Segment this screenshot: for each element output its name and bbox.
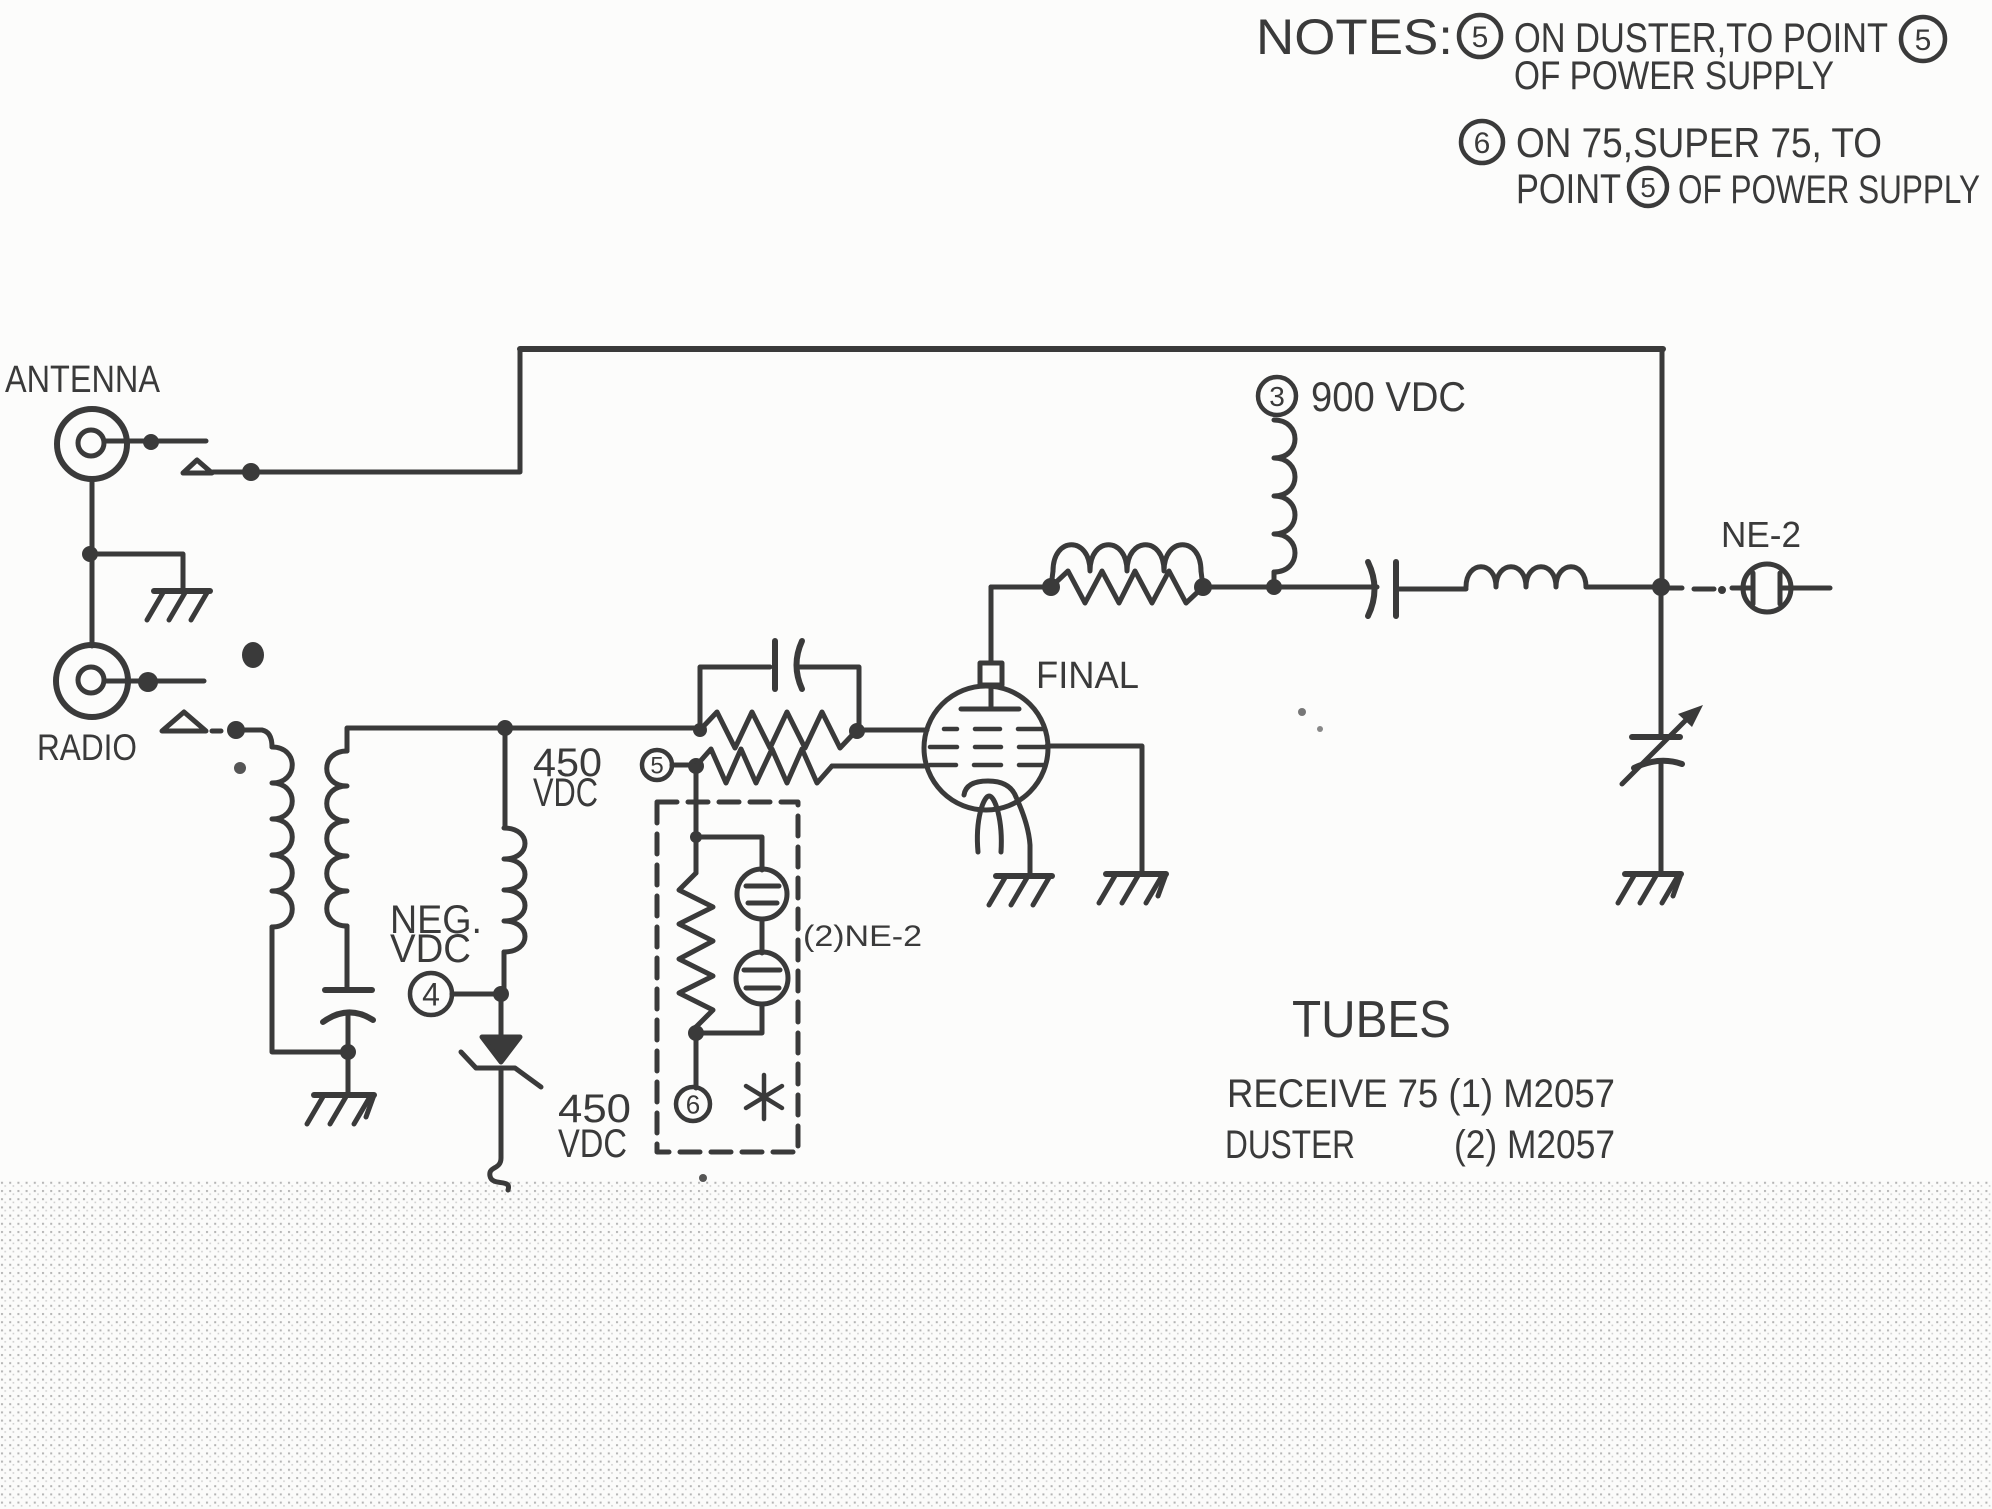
table row RECEIVE 75 (1) M2057 — [1227, 1072, 1615, 1116]
neon lamp DS1 — [737, 869, 787, 919]
inductor L3 plate choke — [1274, 420, 1295, 587]
label 450 VDC (lower) — [558, 1087, 631, 1166]
label NE-2 — [1721, 514, 1801, 555]
neon lamp DS3 NE-2 — [1743, 564, 1791, 612]
circled 6 (note line 2) — [1461, 121, 1503, 163]
svg-text:(2)NE-2: (2)NE-2 — [803, 920, 922, 953]
svg-text:4: 4 — [422, 977, 440, 1013]
svg-text:3: 3 — [1269, 381, 1285, 412]
capacitor C2 left plate — [772, 641, 778, 689]
svg-text:ANTENNA: ANTENNA — [5, 359, 161, 401]
junction dot radio wire — [227, 721, 245, 739]
label ANTENNA — [5, 359, 161, 401]
capacitor C1 flat plate — [325, 987, 372, 993]
resistor R4 (parasitic suppressor) — [1051, 571, 1203, 603]
scan speck small — [234, 708, 1323, 1182]
svg-text:6: 6 — [1474, 127, 1491, 160]
wire: after antenna triangle — [213, 470, 251, 475]
junction dot ground node — [340, 1044, 356, 1060]
junction dot on antenna stub — [143, 434, 159, 450]
tube V1 plate — [961, 685, 1019, 709]
label RADIO — [37, 727, 137, 768]
circled 5 (note line 1) — [1459, 15, 1501, 57]
svg-text:POINT: POINT — [1516, 165, 1621, 212]
capacitor C3 curved plate — [1368, 562, 1375, 616]
svg-text:OF POWER SUPPLY: OF POWER SUPPLY — [1514, 54, 1834, 98]
label NEG. VDC — [390, 898, 482, 971]
wire: branch to ground (left) — [90, 554, 183, 591]
svg-text:5: 5 — [650, 753, 663, 780]
circled 4 point — [410, 973, 452, 1015]
wire: node to zener — [499, 994, 504, 1037]
inductor L2 (parasitic suppressor) — [1051, 545, 1203, 587]
wire: top bus horizontal — [520, 346, 1663, 352]
label FINAL — [1036, 655, 1139, 697]
junction dot output node — [1652, 578, 1670, 596]
tube V1 heater leads — [977, 796, 1001, 852]
junction dot B+ node — [1266, 579, 1282, 595]
circled 5 point — [642, 750, 672, 780]
scan speck blob — [242, 642, 264, 668]
label 900 VDC — [1311, 373, 1466, 420]
capacitor C3 flat plate — [1393, 562, 1399, 616]
label 450 VDC (upper) — [533, 741, 602, 815]
svg-text:ON 75,SUPER 75, TO: ON 75,SUPER 75, TO — [1516, 119, 1882, 166]
note text OF POWER SUPPLY — [1514, 54, 1834, 98]
svg-text:VDC: VDC — [390, 927, 471, 971]
wire: C3 to L4 — [1396, 587, 1466, 592]
svg-text:NE-2: NE-2 — [1721, 514, 1801, 555]
capacitor C2 right plate (curved) — [797, 641, 803, 689]
junction dot box top node — [690, 831, 702, 843]
circled 5 (note line 2) — [1629, 168, 1667, 206]
wire: point4 stub — [452, 992, 500, 997]
wire: right bus vertical down to output node — [1660, 349, 1665, 587]
wire: to B+ node — [1203, 585, 1377, 590]
resistor R3 (vertical) — [679, 837, 713, 1033]
wire: primary bottom loop to ground node — [272, 927, 348, 1052]
wire: plate lead corner — [991, 585, 1051, 590]
wire: cathode to ground — [1016, 797, 1030, 874]
capacitor C1 curved plate — [323, 1012, 373, 1022]
asterisk note mark — [746, 1075, 782, 1119]
ground (transformer) — [307, 1095, 374, 1124]
zener diode CR1 (triangle) — [482, 1037, 520, 1062]
wire: plate top-cap lead — [989, 587, 994, 663]
tube V1 top cap — [980, 663, 1002, 685]
wire: capacitor to ground node — [346, 1012, 351, 1052]
junction dot on radio stub — [138, 672, 158, 692]
dashed option box — [657, 802, 798, 1152]
wire: antenna jack stub — [104, 439, 206, 444]
resistor R1 — [700, 712, 857, 748]
tube V1 envelope — [924, 686, 1048, 810]
wire: node to point6 — [694, 1033, 699, 1088]
wire: radio jack stub — [104, 679, 204, 684]
svg-text:5: 5 — [1915, 24, 1932, 57]
transformer T1 primary winding — [272, 747, 292, 927]
wire: R2 to tube grid2 — [832, 764, 928, 769]
wire: radio dot to transformer primary — [243, 730, 272, 747]
wire: C4 to ground — [1659, 764, 1664, 874]
svg-text:DUSTER: DUSTER — [1225, 1123, 1355, 1167]
wire: antenna to top bus — [251, 349, 520, 472]
table row DUSTER (2) M2057 — [1225, 1123, 1615, 1167]
svg-text:VDC: VDC — [533, 771, 598, 815]
wire: lamps bottom loop — [696, 1004, 762, 1033]
wire: dash-dot to NE-2 lamp — [1668, 586, 1743, 594]
note text ON DUSTER,TO POINT — [1514, 14, 1888, 61]
dash after radio triangle — [212, 729, 221, 734]
wire: R1 to tube grid — [857, 728, 927, 733]
svg-text:OF POWER SUPPLY: OF POWER SUPPLY — [1678, 168, 1980, 212]
zener diode CR1 bar with bent ends — [461, 1052, 541, 1087]
variable capacitor C4 curved plate — [1634, 761, 1682, 768]
circled 5 (note line 1 end) — [1901, 17, 1945, 61]
circled 6 point — [676, 1087, 710, 1121]
svg-text:NOTES:: NOTES: — [1256, 9, 1453, 65]
junction dot point5 node — [688, 758, 704, 774]
junction dot parasitic right — [1194, 578, 1212, 596]
variable capacitor C4 arrow — [1622, 705, 1703, 784]
tube V1 grid rows — [930, 729, 1048, 765]
svg-text:FINAL: FINAL — [1036, 655, 1139, 697]
wire: choke to point4 node — [502, 952, 507, 994]
ground (grid return) — [1099, 874, 1166, 903]
note heading NOTES: — [1256, 9, 1453, 65]
svg-text:5: 5 — [1472, 21, 1489, 54]
heading TUBES — [1292, 991, 1451, 1049]
plug triangle (antenna) — [183, 460, 212, 473]
variable capacitor C4 top plate — [1632, 734, 1680, 740]
wire: 450VDC node to R1 — [505, 726, 700, 731]
tube V1 cathode — [964, 781, 1016, 797]
ground (output tank) — [1618, 874, 1681, 903]
junction dot parasitic left — [1042, 578, 1060, 596]
label (2)NE-2 — [803, 920, 922, 953]
plug triangle (radio) — [162, 712, 206, 731]
note text POINT — [1516, 165, 1621, 212]
wire: node to ground — [346, 1052, 351, 1095]
wire: zener down with break squiggle — [490, 1068, 509, 1190]
junction dot box bottom node — [688, 1025, 704, 1041]
ground (cathode) — [989, 876, 1052, 905]
capacitor C2 branch right leg — [800, 667, 859, 730]
junction dot R1 left — [693, 723, 707, 737]
wire: node down to choke — [503, 728, 508, 828]
junction dot 450VDC node — [497, 720, 513, 736]
svg-text:5: 5 — [1640, 172, 1656, 203]
wire: point5 stub — [672, 763, 694, 768]
svg-text:TUBES: TUBES — [1292, 991, 1451, 1049]
svg-text:VDC: VDC — [558, 1122, 627, 1166]
wire: between lamps — [760, 919, 765, 953]
note text OF POWER SUPPLY (line 2) — [1678, 168, 1980, 212]
junction dot R1 right — [849, 723, 865, 739]
svg-text:RADIO: RADIO — [37, 727, 137, 768]
wire: point5 node down — [694, 766, 699, 837]
capacitor C2 branch left leg — [700, 667, 770, 730]
inductor L4 output — [1466, 567, 1586, 587]
wire: branch to lamps — [696, 837, 762, 870]
wire: output node down — [1659, 587, 1664, 737]
wire: secondary top to 450VDC node — [347, 728, 700, 751]
junction dot on jack column — [82, 546, 98, 562]
junction dot point4 node — [493, 986, 509, 1002]
wire: jack column vertical — [90, 479, 95, 646]
connector jack J1 ANTENNA — [57, 409, 127, 479]
transformer T1 secondary winding — [327, 751, 347, 926]
wire: grid return to ground — [1047, 746, 1142, 874]
resistor R2 — [696, 749, 832, 783]
svg-text:6: 6 — [686, 1089, 700, 1119]
svg-text:(2) M2057: (2) M2057 — [1454, 1123, 1615, 1167]
svg-text:RECEIVE 75 (1) M2057: RECEIVE 75 (1) M2057 — [1227, 1072, 1615, 1116]
svg-text:900 VDC: 900 VDC — [1311, 373, 1466, 420]
inductor L1 bias choke — [504, 828, 525, 952]
wire: NE-2 right stub — [1791, 586, 1830, 591]
wire: L4 to output node — [1586, 585, 1662, 590]
wire: secondary bottom to capacitor — [345, 926, 350, 990]
junction dot antenna wire — [242, 463, 260, 481]
circled 3 point — [1258, 377, 1296, 415]
ground (antenna branch) — [147, 591, 210, 620]
connector jack J2 RADIO — [56, 645, 128, 717]
neon lamp DS2 — [736, 952, 788, 1004]
note text ON 75,SUPER 75, TO — [1516, 119, 1882, 166]
halftone dot band at bottom of scan — [0, 1181, 1992, 1509]
